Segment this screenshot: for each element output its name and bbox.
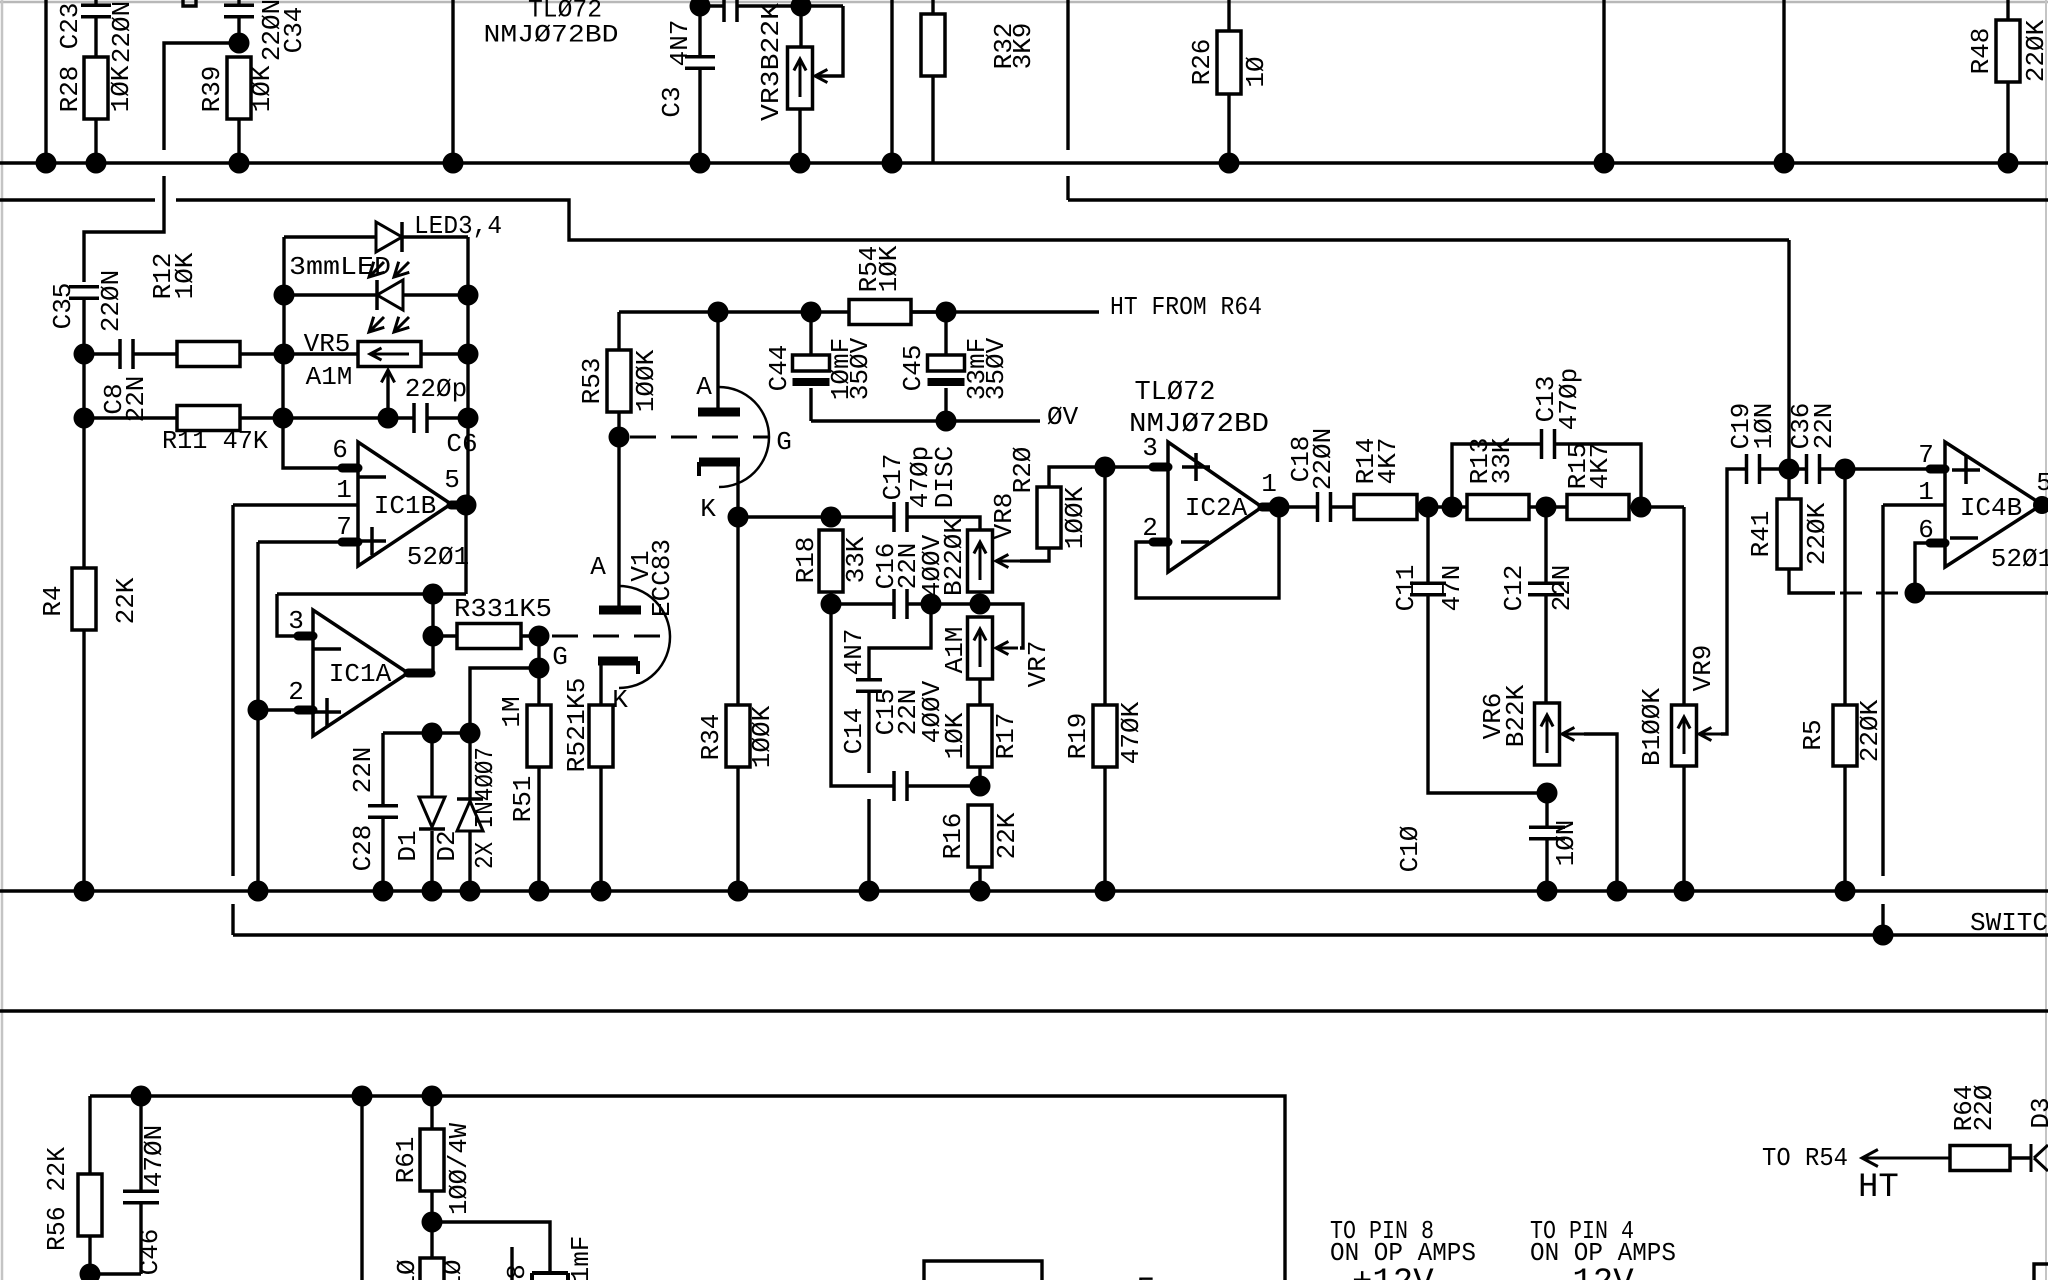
- label R12: [148, 253, 178, 300]
- node junction VR9 bottom: [1674, 881, 1695, 902]
- svg-text:33K: 33K: [841, 536, 871, 583]
- svg-text:22ØN: 22ØN: [107, 1, 137, 63]
- capacitor C17: [894, 502, 907, 532]
- svg-text:7: 7: [336, 512, 352, 542]
- node junction C3 bottom: [690, 153, 711, 174]
- node junction V1A cathode: [728, 507, 749, 528]
- label C3: [657, 86, 687, 117]
- wire R11 right to node: [240, 416, 283, 419]
- op-amp IC1B: [342, 442, 464, 566]
- label TO R54: [1762, 1143, 1848, 1173]
- label 10K of R28: [106, 65, 136, 112]
- node junction R18 top: [821, 507, 842, 528]
- wire VR3 wiper: [815, 6, 843, 83]
- node junction C8 left: [74, 344, 95, 365]
- wire vertical feed x453: [451, 0, 454, 163]
- wire VR5 wiper: [381, 370, 394, 418]
- node junction R61 top: [422, 1086, 443, 1107]
- label 7 of IC1B: [336, 512, 352, 542]
- label C44: [764, 345, 794, 392]
- resistor R18: [819, 530, 843, 604]
- node junction C14 branch: [921, 594, 942, 615]
- wire grid node verticals: [537, 636, 540, 668]
- wire x512 partial: [510, 1247, 513, 1280]
- triode V1B cathode: [598, 661, 638, 705]
- triode V1A anode: [698, 312, 740, 412]
- label 1mF of C48: [566, 1236, 596, 1280]
- wire second rail mid segment with step down: [176, 200, 1789, 240]
- label 470p of C13: [1554, 368, 1584, 430]
- svg-text:+12V: +12V: [1352, 1264, 1434, 1280]
- node junction VR8 bottom: [970, 594, 991, 615]
- label IC4B: [1960, 493, 2022, 523]
- node junction R39 bottom: [229, 153, 250, 174]
- resistor R41: [1777, 469, 1835, 593]
- label 10 of R26: [1241, 56, 1271, 87]
- resistor R28: [84, 57, 108, 163]
- svg-text:B22K: B22K: [1501, 684, 1531, 747]
- node junction C34/R39 top: [229, 33, 250, 54]
- svg-text:47Øp: 47Øp: [1554, 368, 1584, 430]
- label VR8: [989, 493, 1019, 540]
- wire VR8 to VR7 row: [980, 604, 1023, 648]
- capacitor C16: [894, 589, 907, 619]
- label NMJ072BD of IC1: [484, 21, 619, 50]
- label C6: [446, 429, 477, 459]
- capacitor C6: [414, 403, 468, 433]
- node junction R17 bottom: [970, 776, 991, 797]
- svg-text:1mF: 1mF: [566, 1236, 596, 1280]
- wire x84 between rows: [82, 354, 85, 418]
- capacitor C3: [685, 6, 715, 163]
- node junction C44 top: [801, 302, 822, 323]
- label IC1B: [374, 491, 436, 521]
- svg-text:1ØØK: 1ØØK: [747, 705, 777, 768]
- wire pin3 row: [1105, 465, 1155, 468]
- label -12V: [1552, 1264, 1634, 1280]
- label 22N of C36: [1809, 403, 1839, 450]
- node junction D1 bottom: [422, 881, 443, 902]
- svg-text:R39: R39: [197, 66, 227, 113]
- node junction C13 branch: [1442, 497, 1463, 518]
- node junction x892 on top bus: [882, 153, 903, 174]
- svg-text:3: 3: [1142, 433, 1158, 463]
- label 400V of C16: [917, 534, 947, 597]
- svg-text:6: 6: [1918, 515, 1934, 545]
- label 10K of R12: [170, 252, 200, 299]
- svg-text:1ØØK: 1ØØK: [631, 349, 661, 412]
- wire x1882 vertical hop to switch line: [1881, 505, 1884, 935]
- label R54: [854, 246, 884, 293]
- wire x233 vertical hop to switch line: [231, 505, 234, 935]
- resistor R61: [420, 1096, 444, 1258]
- wire x468 down to VR5 row: [466, 295, 469, 354]
- svg-text:C12: C12: [1499, 565, 1529, 612]
- wire pin3 riser: [277, 594, 300, 636]
- node junction R15 right: [1631, 497, 1652, 518]
- svg-text:4N7: 4N7: [665, 20, 695, 67]
- svg-text:35ØV: 35ØV: [981, 337, 1011, 400]
- label VR7: [1023, 641, 1053, 688]
- resistor R34: [726, 517, 750, 891]
- node junction R52 bottom: [591, 881, 612, 902]
- svg-text:22ØK: 22ØK: [1855, 699, 1885, 762]
- label +12V: [1352, 1264, 1434, 1280]
- label R56 22K: [42, 1147, 72, 1251]
- wire vertical feed x892: [890, 0, 893, 163]
- wire vertical feed x46: [44, 0, 47, 163]
- node junction R61 bottom: [422, 1212, 443, 1233]
- label C19: [1726, 403, 1756, 450]
- wire x258 vertical: [256, 542, 259, 891]
- svg-text:4N7: 4N7: [839, 629, 869, 676]
- capacitor C12: [1528, 507, 1564, 703]
- label R13: [1465, 438, 1495, 485]
- svg-text:R51: R51: [508, 776, 538, 823]
- label VR5: [304, 329, 351, 359]
- capacitor C48 partial: [532, 1273, 568, 1280]
- svg-text:1M: 1M: [497, 696, 527, 727]
- svg-text:C46: C46: [135, 1229, 165, 1276]
- label SWITCH: [1970, 908, 2048, 938]
- label 220K of R5: [1855, 699, 1885, 762]
- wire from R39 top to x164 with hop over bus: [84, 43, 239, 282]
- label 5201 of IC1B: [407, 542, 469, 572]
- capacitor C34: [224, 0, 254, 43]
- label 220p of C6: [405, 374, 467, 404]
- wire R13 to R15: [1529, 505, 1567, 508]
- label 350V of C44: [845, 337, 875, 400]
- wire K row: [738, 517, 980, 530]
- label DISC of C17: [930, 446, 960, 508]
- wire VR6 wiper: [1562, 727, 1617, 891]
- svg-text:C6: C6: [446, 429, 477, 459]
- triode V1B anode: [599, 606, 641, 615]
- svg-text:4K7: 4K7: [1373, 438, 1403, 485]
- node junction VR6 wiper bottom: [1607, 881, 1628, 902]
- node junction C10 bottom: [1537, 881, 1558, 902]
- triode V1A envelope arc: [719, 387, 769, 487]
- label R32: [989, 23, 1019, 70]
- resistor R14: [1354, 495, 1417, 520]
- node junction R33 right grid node: [529, 626, 550, 647]
- wire pin2 from node: [258, 708, 298, 711]
- node junction R11 right: [273, 408, 294, 429]
- label 220K of R41: [1802, 502, 1832, 565]
- wire LED loop right vertical: [466, 237, 469, 295]
- label B220K of VR8: [939, 518, 969, 596]
- svg-text:R11 47K: R11 47K: [162, 426, 268, 456]
- node junction R5 bottom: [1835, 881, 1856, 902]
- wire diode top row: [383, 731, 470, 734]
- label B22K of VR6: [1501, 684, 1531, 747]
- wire x283 down to IC1B pin6: [283, 418, 344, 468]
- label C48 partial: [502, 1264, 532, 1280]
- svg-text:D1: D1: [393, 830, 423, 861]
- label 33mF of C45: [962, 338, 992, 400]
- svg-text:8: 8: [502, 1264, 532, 1280]
- label R39: [197, 66, 227, 113]
- svg-text:C14: C14: [839, 708, 869, 755]
- label C34: [279, 7, 309, 54]
- capacitor C45 electrolytic: [928, 312, 965, 421]
- label 2 of IC1A: [288, 677, 304, 707]
- wire x468 from C6 row to output: [466, 418, 469, 505]
- label V1: [626, 550, 656, 581]
- svg-text:6: 6: [332, 435, 348, 465]
- svg-text:22N: 22N: [1547, 565, 1577, 612]
- label C45: [898, 345, 928, 392]
- resistor R52: [589, 705, 613, 891]
- capacitor C14 with elbow: [856, 604, 931, 891]
- diode D3 partial: [2031, 1144, 2048, 1172]
- wire top row y6: [700, 4, 843, 7]
- wire HT arrow to R54: [1862, 1150, 1950, 1167]
- wire C46 bottom link: [90, 1272, 141, 1275]
- wire VR9 wiper: [1699, 469, 1746, 741]
- label C15: [871, 689, 901, 736]
- label R48: [1966, 28, 1996, 75]
- resistor R48: [1996, 0, 2020, 163]
- label HT FROM R64: [1110, 292, 1262, 322]
- label TO PIN 4: [1530, 1216, 1634, 1246]
- wire feedback top row: [277, 592, 466, 595]
- label 3mmLED: [289, 252, 391, 282]
- wire LED2 row: [284, 293, 468, 296]
- node junction R53 bottom grid node: [609, 427, 630, 448]
- svg-text:52Ø1: 52Ø1: [1991, 544, 2048, 574]
- node junction IC1B output: [456, 495, 477, 516]
- node junction C3 top: [690, 0, 711, 17]
- svg-text:47ØN: 47ØN: [139, 1125, 169, 1187]
- wire grid node to D2 column: [470, 668, 539, 733]
- resistor R17: [968, 679, 992, 786]
- label VR3 B22K: [756, 3, 786, 121]
- label 5 of IC4B: [2036, 468, 2048, 498]
- svg-text:VR7: VR7: [1023, 641, 1053, 688]
- svg-text:22Ø: 22Ø: [1969, 1085, 1999, 1132]
- label R62 partial: [392, 1259, 422, 1280]
- node junction R26 bottom: [1219, 153, 1240, 174]
- label 10K of R54: [874, 245, 904, 292]
- svg-text:1: 1: [1261, 469, 1277, 499]
- svg-text:HT FROM R64: HT FROM R64: [1110, 292, 1262, 322]
- arrows light into VR5: [369, 317, 409, 332]
- node junction VR6 bottom: [1537, 783, 1558, 804]
- label 10K of R17: [940, 712, 970, 759]
- wire V1B anode from grid node: [617, 437, 620, 608]
- svg-text:1Ø: 1Ø: [1241, 56, 1271, 87]
- svg-text:R53: R53: [577, 358, 607, 405]
- label 22N of C8: [121, 376, 151, 423]
- wire switch line: [233, 933, 2048, 936]
- label 10N of C10: [1551, 820, 1581, 867]
- wire IC1B pin7 row: [258, 540, 344, 543]
- label 10K of R39: [247, 65, 277, 112]
- svg-text:B22ØK: B22ØK: [939, 518, 969, 596]
- wire V1B grid dashed: [552, 635, 672, 638]
- connector box partial bottom right: [2034, 1264, 2048, 1280]
- svg-text:1ØØK: 1ØØK: [1060, 486, 1090, 549]
- node junction x1882 on switch line: [1873, 925, 1894, 946]
- label 220N of C34: [257, 0, 287, 61]
- svg-text:5: 5: [2036, 468, 2048, 498]
- svg-text:IC1A: IC1A: [329, 659, 392, 689]
- wire LED loop left vertical: [282, 237, 285, 295]
- capacitor C23: [81, 0, 111, 57]
- resistor R13: [1467, 495, 1529, 520]
- svg-text:VR8: VR8: [989, 493, 1019, 540]
- resistor R5: [1833, 469, 1857, 891]
- resistor R15: [1567, 495, 1684, 520]
- label A1M of VR7: [940, 627, 970, 674]
- resistor R12: [177, 342, 240, 367]
- node junction C46 top: [131, 1086, 152, 1107]
- svg-text:7: 7: [1918, 440, 1934, 470]
- capacitor C13: [1542, 429, 1555, 459]
- label C10: [1395, 826, 1425, 873]
- node junction x1604 on top bus: [1594, 153, 1615, 174]
- label C23: [55, 3, 85, 50]
- resistor R26: [1217, 0, 1241, 163]
- node junction VR3 top: [791, 0, 812, 17]
- label 22N of C28: [348, 747, 378, 794]
- svg-text:3mmLED: 3mmLED: [289, 252, 391, 282]
- label HT: [1858, 1169, 1899, 1207]
- node junction R4 bottom: [74, 881, 95, 902]
- resistor R39: [227, 57, 251, 163]
- label 220N of C18: [1308, 428, 1338, 490]
- wire VR8 wiper to R20: [996, 548, 1049, 568]
- wire HT row: [619, 310, 1099, 313]
- svg-text:2: 2: [288, 677, 304, 707]
- label D3: [2026, 1097, 2048, 1128]
- resistor R62 partial: [420, 1258, 444, 1280]
- label 220N of C23: [107, 1, 137, 63]
- label 1 of IC2A: [1261, 469, 1277, 499]
- node junction D1 top: [422, 723, 443, 744]
- label K of V1A: [700, 494, 716, 524]
- label 33K of R13: [1487, 437, 1517, 484]
- label partial glyph below rect: [1136, 1273, 1156, 1280]
- label R61: [391, 1137, 421, 1184]
- svg-text:A: A: [696, 372, 712, 402]
- label 0V: [1047, 402, 1079, 432]
- svg-text:C45: C45: [898, 345, 928, 392]
- label 6 of IC1B: [332, 435, 348, 465]
- wire C36 to IC4B pin7: [1820, 467, 1930, 470]
- resistor R51: [527, 668, 551, 891]
- svg-text:1: 1: [1918, 477, 1934, 507]
- svg-text:22ØK: 22ØK: [2021, 19, 2048, 82]
- label A of V1B: [590, 552, 606, 582]
- op-amp IC2A: [1153, 442, 1276, 572]
- resistor R54: [849, 300, 946, 325]
- node junction C36 right: [1835, 459, 1856, 480]
- label 400V of C15: [917, 680, 947, 743]
- capacitor C15: [894, 771, 907, 801]
- svg-text:VR5: VR5: [304, 329, 351, 359]
- svg-text:C17: C17: [878, 454, 908, 501]
- svg-text:1ØØ/4W: 1ØØ/4W: [444, 1123, 474, 1215]
- svg-text:1Ø: 1Ø: [392, 1259, 422, 1280]
- svg-text:R2Ø: R2Ø: [1008, 447, 1038, 494]
- label 2X IN4007: [470, 747, 500, 869]
- svg-text:R17: R17: [991, 713, 1021, 760]
- node junction R48 bottom: [1998, 153, 2019, 174]
- label ON OP AMPS of pin4: [1530, 1238, 1676, 1268]
- node junction D2 top: [460, 723, 481, 744]
- svg-text:A: A: [590, 552, 606, 582]
- label R33 1K5: [454, 594, 552, 624]
- resistor R64: [1950, 1146, 2031, 1171]
- label 5 of IC1B: [444, 465, 460, 495]
- svg-text:R28: R28: [55, 66, 85, 113]
- capacitor C11: [1410, 507, 1546, 793]
- label 3 of IC1A: [288, 606, 304, 636]
- label 100/4W of R61: [444, 1123, 474, 1215]
- svg-text:K: K: [700, 494, 716, 524]
- node junction C14 bottom: [859, 881, 880, 902]
- node junction C6 right: [458, 408, 479, 429]
- svg-text:A1M: A1M: [940, 627, 970, 674]
- svg-text:VR9: VR9: [1688, 645, 1718, 692]
- svg-text:NMJØ72BD: NMJØ72BD: [484, 21, 619, 50]
- capacitor C18: [1279, 492, 1354, 522]
- label 1M of R51: [497, 696, 527, 727]
- partial resistor top edge: [183, 0, 196, 6]
- node junction x453 on top bus: [443, 153, 464, 174]
- node junction pin6 riser: [1905, 583, 1926, 604]
- svg-text:LED3,4: LED3,4: [414, 211, 502, 241]
- potentiometer VR5: [358, 342, 421, 367]
- label C14: [839, 708, 869, 755]
- label 3K9 of R32: [1008, 23, 1038, 70]
- svg-text:R41: R41: [1746, 511, 1776, 558]
- capacitor C19: [1747, 454, 1760, 484]
- svg-text:ECC83: ECC83: [647, 539, 677, 617]
- node junction feedback row: [423, 584, 444, 605]
- label D2: [432, 830, 462, 861]
- svg-text:1Ø: 1Ø: [438, 1259, 468, 1280]
- svg-text:R521K5: R521K5: [562, 678, 592, 773]
- wire x1789 from second rail: [1787, 240, 1790, 469]
- wire IC4B pin6 riser: [1915, 543, 1930, 593]
- resistor R11: [84, 406, 240, 431]
- label TO PIN 8: [1330, 1216, 1434, 1246]
- label 10N of C19: [1749, 403, 1779, 450]
- svg-text:D2: D2: [432, 830, 462, 861]
- label 220K of R48: [2021, 19, 2048, 82]
- resistor R53: [607, 312, 631, 437]
- capacitor top row: [724, 0, 737, 22]
- svg-text:C28: C28: [348, 825, 378, 872]
- label 2 of IC2A: [1142, 513, 1158, 543]
- node junction R19 bottom: [1095, 881, 1116, 902]
- label VR9: [1688, 645, 1718, 692]
- svg-text:1ØK: 1ØK: [874, 245, 904, 292]
- label C18: [1286, 436, 1316, 483]
- label C16: [871, 543, 901, 590]
- wire x284 down to VR5 row: [282, 295, 285, 354]
- label A of V1A: [696, 372, 712, 402]
- label TL072 of IC2: [1134, 378, 1215, 408]
- resistor R32: [921, 0, 945, 163]
- op-amp IC1A: [298, 610, 431, 736]
- node junction C28 bottom: [373, 881, 394, 902]
- node junction R18 bottom: [821, 594, 842, 615]
- wire R12 to VR5 node: [240, 352, 358, 355]
